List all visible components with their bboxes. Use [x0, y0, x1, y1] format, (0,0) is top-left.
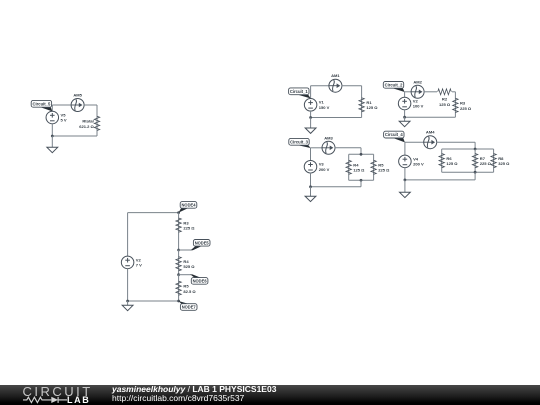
- wire bottom: [52, 135, 97, 137]
- svg-text:5 V: 5 V: [61, 118, 67, 123]
- svg-text:NODE6: NODE6: [193, 279, 208, 284]
- wire feed down to rail: [360, 148, 362, 155]
- junction top rail: [360, 153, 363, 156]
- voltage source V4 200V: [399, 155, 424, 168]
- wire R2 to corner: [452, 91, 455, 93]
- footer bar: [0, 385, 540, 405]
- svg-text:125 Ω: 125 Ω: [353, 168, 365, 173]
- node flag NODE7: [179, 301, 197, 310]
- wire R6 branch: [441, 149, 443, 172]
- wire R8 branch: [493, 149, 495, 172]
- node NODE5 junction: [177, 249, 180, 252]
- svg-text:82.5 Ω: 82.5 Ω: [183, 289, 196, 294]
- junction V2/gnd: [403, 116, 406, 119]
- CircuitLab logo: [0, 384, 110, 405]
- wire feed down from rail: [360, 180, 362, 187]
- svg-text:Circuit_1: Circuit_1: [290, 89, 308, 94]
- svg-text:225 Ω: 225 Ω: [460, 106, 472, 111]
- ground (Circuit_5): [47, 147, 58, 152]
- node flag NODE5: [193, 240, 210, 247]
- junction V5-/gnd: [51, 135, 54, 138]
- resistor R6 125 ohm: [439, 154, 458, 168]
- junction top rail at R7: [474, 148, 477, 151]
- flag Circuit_3: [289, 138, 311, 148]
- node NODE6 junction: [177, 273, 180, 276]
- resistor R4 525 ohm (series): [176, 257, 195, 271]
- ground (Circuit_3): [305, 196, 316, 201]
- svg-text:150 V: 150 V: [319, 105, 330, 110]
- flag Circuit_2: [383, 82, 404, 93]
- wire V3 bottom lead: [310, 173, 312, 187]
- footer meta text: [112, 384, 276, 403]
- ground (series circuit): [122, 305, 133, 310]
- wire to ammeter AM3: [311, 147, 323, 149]
- wire right side (through R3): [454, 92, 456, 117]
- resistor R5 82.5 ohm (series): [176, 281, 197, 295]
- wire top rail (R4||R5): [349, 153, 374, 155]
- wire V1 top lead: [310, 86, 312, 99]
- svg-text:LAB: LAB: [67, 395, 90, 405]
- node flag NODE5 tail: [191, 246, 202, 250]
- wire right side (through Rtotal): [96, 105, 98, 136]
- wire ammeter to feed corner: [335, 147, 361, 149]
- svg-text:Circuit_4: Circuit_4: [385, 132, 403, 137]
- wire V1 bottom lead: [310, 111, 312, 118]
- junction bottom rail at R7: [474, 171, 477, 174]
- wire bottom: [311, 186, 362, 188]
- wire right side (through R1): [361, 86, 363, 118]
- wire bottom: [405, 179, 475, 181]
- wire top to ammeter AM1: [311, 85, 330, 87]
- resistor R3 225 ohm (series): [176, 218, 195, 232]
- node NODE7 junction: [177, 300, 180, 303]
- wire R5 branch: [373, 154, 375, 180]
- wire ground stem: [127, 301, 129, 305]
- resistor R8 325 ohm: [491, 154, 510, 168]
- node flag NODE6 tail: [190, 274, 201, 277]
- wire top rail (R6||R7||R8): [442, 148, 494, 150]
- wire ground stem: [310, 187, 312, 196]
- wire bottom: [311, 117, 362, 119]
- wire V4 top lead: [404, 142, 406, 155]
- svg-text:Circuit_5: Circuit_5: [33, 101, 51, 106]
- svg-text:AM5: AM5: [73, 93, 82, 98]
- svg-text:125 Ω: 125 Ω: [366, 105, 378, 110]
- svg-text:621.2 Ω: 621.2 Ω: [79, 124, 94, 129]
- svg-text:200 V: 200 V: [413, 162, 424, 167]
- ammeter AM1: [329, 73, 342, 92]
- wire bottom rail: [349, 179, 374, 181]
- wire V5 bottom lead: [51, 124, 53, 136]
- wire ammeter to corner: [342, 85, 362, 87]
- svg-text:100 V: 100 V: [413, 104, 424, 109]
- wire left side upper: [127, 213, 129, 257]
- wire ammeter to corner: [84, 104, 97, 106]
- svg-text:AM4: AM4: [426, 130, 435, 135]
- resistor R1 125 ohm: [359, 98, 378, 112]
- ground (Circuit_1): [305, 128, 316, 133]
- svg-text:NODE5: NODE5: [195, 240, 210, 245]
- wire ground stem: [51, 136, 53, 147]
- resistor R5 225 ohm: [371, 160, 390, 174]
- resistor R3 225 ohm: [453, 98, 472, 112]
- ammeter AM2: [411, 79, 424, 98]
- resistor Rtotal 621.2 ohm: [79, 116, 99, 130]
- wire feed down from rail: [474, 172, 476, 180]
- flag Circuit_4: [384, 131, 405, 142]
- junction V1/gnd: [309, 116, 312, 119]
- wire R4 segment: [178, 250, 180, 275]
- flag Circuit_1: [289, 88, 311, 99]
- wire R4 branch: [348, 154, 350, 180]
- voltage source V1 150V: [304, 99, 329, 112]
- node flag NODE6: [191, 278, 208, 285]
- svg-text:AM1: AM1: [331, 73, 340, 78]
- junction V3/gnd: [309, 185, 312, 188]
- svg-text:AM3: AM3: [324, 135, 333, 140]
- svg-text:125 Ω: 125 Ω: [439, 102, 451, 107]
- wire bottom rail: [442, 171, 494, 173]
- svg-text:225 Ω: 225 Ω: [378, 168, 390, 173]
- wire V4 bottom lead: [404, 168, 406, 180]
- resistor R7 225 ohm: [472, 154, 491, 168]
- wire V2 top lead: [404, 92, 406, 98]
- svg-text:225 Ω: 225 Ω: [183, 226, 195, 231]
- svg-text:NODE4: NODE4: [182, 203, 197, 208]
- voltage source V5 5V: [46, 111, 67, 124]
- flag Circuit_5: [31, 100, 52, 111]
- ground (Circuit_4): [400, 192, 411, 197]
- wire to NODE5 flag: [179, 249, 192, 251]
- wire left side lower: [127, 269, 129, 302]
- svg-text:200 V: 200 V: [319, 167, 330, 172]
- svg-text:Circuit_2: Circuit_2: [385, 82, 403, 87]
- wire top: [128, 212, 179, 214]
- wire feed down to rail: [474, 142, 476, 149]
- svg-text:125 Ω: 125 Ω: [446, 161, 458, 166]
- resistor R2 125 ohm: [438, 89, 452, 107]
- svg-text:Circuit_3: Circuit_3: [290, 139, 308, 144]
- wire V2 bottom lead: [404, 110, 406, 118]
- wire ammeter to R2: [424, 91, 437, 93]
- node NODE4 junction: [177, 211, 180, 214]
- wire R7 branch: [474, 149, 476, 172]
- wire R3 segment: [178, 213, 180, 250]
- wire bottom: [405, 116, 456, 118]
- voltage source V2 100V: [398, 97, 423, 110]
- ammeter AM5: [71, 93, 84, 112]
- junction bottom rail: [360, 179, 363, 182]
- junction V4/gnd: [404, 179, 407, 182]
- svg-text:325 Ω: 325 Ω: [498, 161, 510, 166]
- junction V2/gnd (series): [126, 300, 129, 303]
- ammeter AM4: [424, 130, 437, 149]
- node flag NODE4: [179, 202, 197, 213]
- ground (Circuit_2): [399, 121, 410, 126]
- wire bottom: [128, 300, 179, 302]
- wire to ammeter AM4: [405, 141, 424, 143]
- voltage source V3 200V: [304, 160, 329, 173]
- wire ground stem: [404, 117, 406, 121]
- svg-text:225 Ω: 225 Ω: [480, 161, 492, 166]
- wire V3 top lead: [310, 148, 312, 161]
- wire ground stem: [310, 118, 312, 129]
- svg-text:NODE7: NODE7: [182, 305, 197, 310]
- wire to NODE6 flag: [179, 274, 191, 276]
- wire ground stem: [404, 180, 406, 192]
- svg-text:7 V: 7 V: [136, 263, 142, 268]
- svg-text:525 Ω: 525 Ω: [183, 264, 195, 269]
- voltage source V2 7V (series circuit): [121, 256, 142, 269]
- svg-text:AM2: AM2: [413, 79, 422, 84]
- wire to ammeter AM2: [405, 91, 412, 93]
- wire top-left to ammeter: [52, 104, 71, 106]
- wire ammeter to feed corner: [436, 141, 475, 143]
- resistor R4 125 ohm: [346, 160, 365, 174]
- wire V5 top lead: [51, 105, 53, 111]
- ammeter AM3: [322, 135, 335, 154]
- wire R5 segment: [178, 275, 180, 301]
